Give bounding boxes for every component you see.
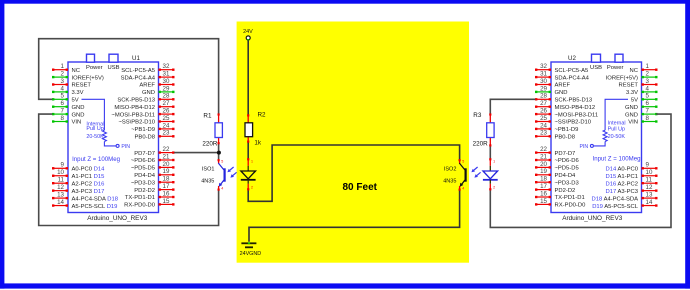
- U1 pin 17 (PD2-D2) stub: [134, 183, 174, 194]
- svg-text:RX-PD0-D0: RX-PD0-D0: [555, 203, 587, 209]
- U1 pin 16 (TX-PD1-D1) stub: [125, 190, 175, 201]
- svg-text:PD2-D2: PD2-D2: [555, 188, 576, 194]
- svg-text:9: 9: [61, 162, 65, 169]
- svg-text:D17 A3-PC3: D17 A3-PC3: [606, 189, 639, 195]
- U1 pin 28 (SCK-PB5-D13) stub: [117, 93, 174, 104]
- wire R2 bottom to ISO1 LED anode: [247, 142, 249, 159]
- svg-text:19: 19: [163, 168, 170, 175]
- U2 pin 18 (~PD3-D3) stub: [535, 176, 579, 187]
- U1 pin 12 (A3-PC3) stub: [52, 184, 104, 195]
- resistor R2 1k: [245, 112, 266, 147]
- svg-text:PD7-D7: PD7-D7: [134, 151, 155, 157]
- svg-text:U1: U1: [132, 55, 140, 62]
- U1 pin 18 (~PD3-D3) stub: [131, 176, 175, 187]
- svg-text:4: 4: [646, 85, 650, 92]
- svg-text:Arduino_UNO_REV3: Arduino_UNO_REV3: [87, 215, 147, 222]
- svg-text:16: 16: [540, 190, 547, 197]
- svg-text:AREF: AREF: [139, 83, 155, 89]
- svg-text:~PB1-D9: ~PB1-D9: [131, 127, 155, 133]
- svg-text:Input Z = 100Meg: Input Z = 100Meg: [72, 156, 120, 163]
- wire R1 bottom through node to ISO1 collector: [218, 144, 220, 160]
- U2 pin 15 (RX-PD0-D0) stub: [535, 198, 586, 209]
- svg-text:Pull Up: Pull Up: [86, 126, 103, 132]
- svg-text:24: 24: [163, 122, 170, 129]
- svg-text:Input Z = 100Meg: Input Z = 100Meg: [593, 156, 641, 163]
- svg-text:GND: GND: [625, 105, 638, 111]
- svg-text:Power: Power: [607, 65, 624, 71]
- svg-text:PD2-D2: PD2-D2: [134, 188, 155, 194]
- U1 pin 8 (VIN) stub: [52, 115, 81, 126]
- optocoupler ISO2 phototransistor (4N35): [443, 159, 465, 191]
- svg-text:SCK-PB5-D13: SCK-PB5-D13: [555, 98, 593, 104]
- U1 pin 9 (A0-PC0) stub: [52, 162, 105, 173]
- svg-text:22: 22: [163, 146, 170, 153]
- svg-text:~PD6-D6: ~PD6-D6: [555, 158, 579, 164]
- optocoupler ISO2 LED (driven by U2 D13): [483, 158, 498, 190]
- svg-text:4: 4: [462, 186, 464, 190]
- svg-text:26: 26: [163, 108, 170, 115]
- svg-text:9: 9: [646, 162, 650, 169]
- svg-text:5V: 5V: [72, 98, 79, 104]
- svg-text:11: 11: [646, 177, 653, 184]
- U2 pin 16 (TX-PD1-D1) stub: [535, 190, 585, 201]
- svg-text:19: 19: [540, 168, 547, 175]
- U2 pin 8 (VIN) stub: [628, 115, 657, 126]
- svg-text:RX-PD0-D0: RX-PD0-D0: [124, 203, 156, 209]
- svg-text:A3-PC3 D17: A3-PC3 D17: [72, 189, 105, 195]
- svg-text:23: 23: [540, 130, 547, 137]
- U2 pin 1 (NC) stub: [630, 63, 658, 74]
- svg-text:USB: USB: [107, 65, 119, 71]
- svg-text:20: 20: [540, 161, 547, 168]
- svg-text:23: 23: [163, 130, 170, 137]
- U1 pin 3 (RESET) stub: [52, 78, 91, 89]
- svg-text:GND: GND: [625, 112, 638, 118]
- svg-text:~PD6-D6: ~PD6-D6: [131, 158, 155, 164]
- svg-text:R3: R3: [473, 112, 482, 119]
- svg-text:20: 20: [163, 161, 170, 168]
- svg-text:Arduino_UNO_REV3: Arduino_UNO_REV3: [562, 215, 622, 222]
- svg-text:14: 14: [57, 199, 64, 206]
- U1 pin 13 (A4-PC4-SDA) stub: [52, 192, 118, 203]
- svg-text:D15 A1-PC1: D15 A1-PC1: [606, 174, 639, 180]
- junction node U1-D7 / R1 / ISO1 collector: [217, 151, 221, 155]
- svg-text:A2-PC2 D16: A2-PC2 D16: [72, 181, 105, 187]
- U2 pin 3 (RESET) stub: [619, 78, 658, 89]
- svg-text:AREF: AREF: [555, 83, 571, 89]
- U2 pin 11 (A2-PC2) stub: [606, 177, 658, 188]
- svg-text:11: 11: [58, 177, 65, 184]
- svg-text:7: 7: [646, 108, 650, 115]
- svg-text:10: 10: [646, 169, 653, 176]
- svg-text:13: 13: [646, 192, 653, 199]
- svg-text:~PB1-D9: ~PB1-D9: [555, 127, 579, 133]
- U1 pin 19 (PD4-D4) stub: [134, 168, 174, 179]
- svg-text:VIN: VIN: [628, 120, 638, 126]
- svg-text:IOREF(+5V): IOREF(+5V): [606, 75, 638, 81]
- U1 pin 22 (PD7-D7) stub: [134, 146, 174, 157]
- svg-text:ISO2: ISO2: [444, 167, 457, 173]
- svg-text:~MOSI-PB3-D11: ~MOSI-PB3-D11: [555, 112, 599, 118]
- svg-text:A0-PC0 D14: A0-PC0 D14: [72, 167, 106, 173]
- svg-text:4N35: 4N35: [201, 179, 214, 185]
- U2 pin 4 (3.3V) stub: [626, 85, 658, 96]
- svg-text:PB0-D8: PB0-D8: [555, 135, 575, 141]
- svg-text:3.3V: 3.3V: [626, 90, 638, 96]
- svg-text:D14 A0-PC0: D14 A0-PC0: [606, 167, 639, 173]
- svg-text:~SS\PB2-D10: ~SS\PB2-D10: [118, 120, 155, 126]
- U2 pin 32 (SCL-PC5-A5) stub: [535, 63, 588, 74]
- svg-text:PD4-D4: PD4-D4: [134, 173, 156, 179]
- U2 pin 17 (PD2-D2) stub: [535, 183, 575, 194]
- U1 pin 11 (A2-PC2) stub: [52, 177, 104, 188]
- U2 pin 29 (GND) stub: [535, 85, 568, 96]
- svg-text:GND: GND: [72, 105, 85, 111]
- svg-text:1k: 1k: [254, 140, 262, 147]
- U1 pin 25 (~SS\PB2-D10) stub: [118, 115, 174, 126]
- svg-text:VIN: VIN: [72, 120, 82, 126]
- svg-text:5: 5: [646, 93, 650, 100]
- wire ISO2 LED cathode to U2 GND pin 7: [490, 114, 671, 227]
- svg-text:20-50K: 20-50K: [86, 134, 104, 140]
- svg-text:5: 5: [61, 93, 65, 100]
- svg-text:24: 24: [540, 122, 547, 129]
- 80 Feet distance label: [343, 182, 378, 193]
- svg-text:6: 6: [646, 100, 650, 107]
- svg-text:29: 29: [163, 85, 170, 92]
- svg-text:SCL-PC5-A5: SCL-PC5-A5: [555, 68, 589, 74]
- U2 pin 27 (MISO-PB4-D12) stub: [535, 100, 595, 111]
- U2 internal pull-up resistor and PIN node: [579, 99, 640, 162]
- svg-text:10: 10: [57, 169, 64, 176]
- svg-text:~PD5-D5: ~PD5-D5: [131, 166, 155, 172]
- svg-text:12: 12: [57, 184, 64, 191]
- svg-text:MISO-PB4-D12: MISO-PB4-D12: [555, 105, 596, 111]
- U1 pin 32 (SCL-PC5-A5) stub: [121, 63, 174, 74]
- svg-text:1: 1: [251, 159, 253, 163]
- svg-text:ISO1: ISO1: [202, 166, 215, 172]
- svg-text:4: 4: [61, 85, 65, 92]
- U2 pin 20 (~PD5-D5) stub: [535, 161, 579, 172]
- svg-text:GND: GND: [555, 90, 568, 96]
- svg-text:3: 3: [61, 78, 65, 85]
- svg-text:PB0-D8: PB0-D8: [135, 135, 155, 141]
- svg-text:SCK-PB5-D13: SCK-PB5-D13: [117, 98, 155, 104]
- U2 pin 7 (GND) stub: [625, 108, 658, 119]
- svg-text:220R: 220R: [473, 140, 489, 147]
- svg-text:25: 25: [540, 115, 547, 122]
- svg-text:GND: GND: [72, 112, 85, 118]
- svg-text:14: 14: [646, 199, 653, 206]
- svg-text:PD4-D4: PD4-D4: [555, 173, 577, 179]
- svg-text:D19 A5-PC5-SCL: D19 A5-PC5-SCL: [592, 204, 639, 210]
- U1 pin 2 (IOREF(+5V)) stub: [52, 71, 104, 82]
- svg-text:SDA-PC4-A4: SDA-PC4-A4: [121, 75, 156, 81]
- svg-text:NC: NC: [630, 68, 638, 74]
- svg-text:22: 22: [540, 146, 547, 153]
- svg-text:MISO-PB4-D12: MISO-PB4-D12: [114, 105, 155, 111]
- svg-text:21: 21: [540, 153, 547, 160]
- wire R3 bottom to ISO2 LED anode: [489, 146, 491, 159]
- svg-text:5: 5: [221, 160, 223, 164]
- resistor R3 220R: [473, 112, 495, 147]
- U1 pin 27 (MISO-PB4-D12) stub: [114, 100, 174, 111]
- svg-text:Power: Power: [86, 65, 103, 71]
- svg-text:5V: 5V: [631, 98, 638, 104]
- U1 pin 4 (3.3V) stub: [52, 85, 84, 96]
- U1 internal pull-up resistor and PIN node: [72, 99, 130, 163]
- U2 pin 28 (SCK-PB5-D13) stub: [535, 93, 592, 104]
- svg-text:30: 30: [163, 78, 170, 85]
- svg-text:1: 1: [646, 63, 650, 70]
- svg-text:8: 8: [646, 115, 650, 122]
- U1 pin 23 (PB0-D8) stub: [135, 130, 175, 141]
- svg-text:20-50K: 20-50K: [608, 134, 626, 140]
- U1 pin 30 (AREF) stub: [139, 78, 174, 89]
- svg-text:A1-PC1 D15: A1-PC1 D15: [72, 174, 105, 180]
- svg-text:18: 18: [163, 176, 170, 183]
- svg-text:RESET: RESET: [72, 83, 92, 89]
- svg-text:SCL-PC5-A5: SCL-PC5-A5: [121, 68, 155, 74]
- svg-text:31: 31: [540, 71, 547, 78]
- svg-text:2: 2: [493, 186, 495, 190]
- U1 pin 31 (SDA-PC4-A4) stub: [121, 71, 175, 82]
- svg-text:D18 A4-PC4-SDA: D18 A4-PC4-SDA: [592, 196, 639, 202]
- svg-text:~MOSI-PB3-D11: ~MOSI-PB3-D11: [111, 112, 155, 118]
- svg-text:2: 2: [646, 71, 650, 78]
- U2 pin 21 (~PD6-D6) stub: [535, 153, 579, 164]
- U1 pin 10 (A1-PC1) stub: [52, 169, 104, 180]
- svg-text:~SS\PB2-D10: ~SS\PB2-D10: [555, 120, 592, 126]
- U2 pin 19 (PD4-D4) stub: [535, 168, 576, 179]
- svg-text:TX-PD1-D1: TX-PD1-D1: [555, 195, 585, 201]
- svg-text:28: 28: [163, 93, 170, 100]
- svg-text:TX-PD1-D1: TX-PD1-D1: [125, 195, 155, 201]
- U2 pin 24 (~PB1-D9) stub: [535, 122, 578, 133]
- svg-text:~PD3-D3: ~PD3-D3: [555, 180, 579, 186]
- svg-text:1: 1: [493, 159, 495, 163]
- 80 Feet cable highlight region: [237, 22, 469, 263]
- svg-text:220R: 220R: [202, 140, 218, 147]
- svg-text:4N35: 4N35: [443, 179, 456, 185]
- svg-text:7: 7: [61, 108, 65, 115]
- svg-text:17: 17: [540, 183, 547, 190]
- U1 pin 7 (GND) stub: [52, 108, 85, 119]
- wire U2 pin 28 D13 to R3 top: [490, 99, 535, 113]
- U1 pin 24 (~PB1-D9) stub: [131, 122, 174, 133]
- svg-text:29: 29: [540, 85, 547, 92]
- U2 pin 25 (~SS\PB2-D10) stub: [535, 115, 592, 126]
- U2 pin 26 (~MOSI-PB3-D11) stub: [535, 108, 598, 119]
- svg-text:27: 27: [163, 100, 170, 107]
- U1 pin 21 (~PD6-D6) stub: [131, 153, 175, 164]
- svg-text:NC: NC: [72, 68, 80, 74]
- U1 pin 29 (GND) stub: [142, 85, 175, 96]
- svg-text:15: 15: [540, 198, 547, 205]
- U2 pin 12 (A3-PC3) stub: [606, 184, 658, 195]
- U1 pin 6 (GND) stub: [52, 100, 85, 111]
- U1 pin 20 (~PD5-D5) stub: [131, 161, 175, 172]
- svg-text:18: 18: [540, 176, 547, 183]
- svg-text:32: 32: [163, 63, 170, 70]
- U2 pin 31 (SDA-PC4-A4) stub: [535, 71, 590, 82]
- svg-text:5: 5: [462, 160, 464, 164]
- optocoupler ISO1 phototransistor (4N35): [201, 159, 224, 191]
- svg-text:8: 8: [61, 115, 65, 122]
- wire U1 GND to ISO1 emitter (ground rail): [39, 114, 219, 225]
- svg-text:16: 16: [163, 190, 170, 197]
- U1 pin 26 (~MOSI-PB3-D11) stub: [111, 108, 174, 119]
- svg-text:Pull Up: Pull Up: [608, 127, 625, 133]
- U2 pin 22 (PD7-D7) stub: [535, 146, 575, 157]
- U2 pin 6 (GND) stub: [625, 100, 658, 111]
- svg-text:~PD3-D3: ~PD3-D3: [131, 180, 155, 186]
- wire ISO1 LED cathode to ISO2 collector (80 ft line A): [248, 145, 459, 201]
- svg-text:R2: R2: [258, 112, 267, 119]
- svg-text:13: 13: [57, 192, 64, 199]
- ISO1 light coupling arrows: [227, 167, 236, 178]
- svg-text:U2: U2: [568, 55, 576, 62]
- svg-text:1: 1: [61, 63, 65, 70]
- U2 pin 13 (A4-PC4-SDA) stub: [592, 192, 658, 203]
- svg-text:24V: 24V: [243, 29, 253, 35]
- svg-text:12: 12: [646, 184, 653, 191]
- svg-text:~PD5-D5: ~PD5-D5: [555, 166, 579, 172]
- svg-text:32: 32: [540, 63, 547, 70]
- svg-text:26: 26: [540, 108, 547, 115]
- resistor R1 220R: [202, 112, 222, 147]
- wire 24V terminal to R2 top: [247, 40, 249, 114]
- power terminal 24V: [243, 29, 253, 40]
- U2 pin 5 (5V) stub: [631, 93, 658, 104]
- U2 pin 30 (AREF) stub: [535, 78, 571, 89]
- svg-text:17: 17: [163, 183, 170, 190]
- wire ISO2 emitter to 24VGND (80 ft line B): [249, 189, 460, 242]
- IC U1 Arduino_UNO_REV3 body: [68, 54, 159, 222]
- svg-text:A5-PC5-SCL D19: A5-PC5-SCL D19: [72, 204, 118, 210]
- svg-text:PD7-D7: PD7-D7: [555, 151, 576, 157]
- svg-text:15: 15: [163, 198, 170, 205]
- svg-text:2: 2: [61, 71, 65, 78]
- svg-text:R1: R1: [203, 112, 212, 119]
- svg-text:IOREF(+5V): IOREF(+5V): [72, 75, 104, 81]
- svg-text:24VGND: 24VGND: [240, 251, 262, 257]
- svg-text:21: 21: [163, 153, 170, 160]
- svg-text:3: 3: [646, 78, 650, 85]
- svg-text:31: 31: [163, 71, 170, 78]
- svg-text:3.3V: 3.3V: [72, 90, 84, 96]
- svg-text:PIN: PIN: [579, 144, 588, 150]
- U1 pin 1 (NC) stub: [52, 63, 80, 74]
- svg-text:6: 6: [61, 100, 65, 107]
- wire U1 pin 22 D7 to ISO1 collector: [174, 152, 218, 154]
- svg-text:D16 A2-PC2: D16 A2-PC2: [606, 181, 639, 187]
- U2 pin 9 (A0-PC0) stub: [606, 162, 658, 173]
- svg-text:80 Feet: 80 Feet: [343, 182, 378, 193]
- U2 pin 23 (PB0-D8) stub: [535, 130, 575, 141]
- ground symbol 24VGND: [240, 242, 262, 257]
- U2 pin 10 (A1-PC1) stub: [606, 169, 658, 180]
- U1 pin 5 (5V) stub: [52, 93, 79, 104]
- U1 pin 15 (RX-PD0-D0) stub: [124, 198, 174, 209]
- svg-text:25: 25: [163, 115, 170, 122]
- IC U2 Arduino_UNO_REV3 body: [551, 54, 642, 222]
- svg-text:2: 2: [251, 186, 253, 190]
- svg-text:4: 4: [221, 186, 223, 190]
- svg-text:30: 30: [540, 78, 547, 85]
- svg-text:SDA-PC4-A4: SDA-PC4-A4: [555, 75, 590, 81]
- svg-text:USB: USB: [590, 65, 602, 71]
- svg-text:A4-PC4-SDA D18: A4-PC4-SDA D18: [72, 196, 118, 202]
- U2 pin 2 (IOREF(+5V)) stub: [606, 71, 658, 82]
- svg-text:RESET: RESET: [619, 83, 639, 89]
- svg-text:28: 28: [540, 93, 547, 100]
- ISO2 light coupling arrows: [471, 167, 480, 178]
- U2 pin 14 (A5-PC5-SCL) stub: [592, 199, 657, 210]
- wire U1 5V to R1 top (5V rail): [39, 39, 219, 114]
- optocoupler ISO1 LED (in 24V loop): [241, 158, 256, 190]
- svg-text:27: 27: [540, 100, 547, 107]
- svg-text:PIN: PIN: [121, 144, 130, 150]
- U1 pin 14 (A5-PC5-SCL) stub: [52, 199, 117, 210]
- svg-text:GND: GND: [142, 90, 155, 96]
